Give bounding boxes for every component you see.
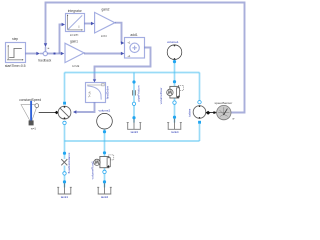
svg-text:integrator: integrator bbox=[68, 9, 83, 13]
svg-text:I: I bbox=[79, 25, 80, 29]
fluid port nodes (filled) bbox=[63, 60, 201, 183]
wire junction riser to integrator bbox=[60, 23, 66, 54]
gain2 block bbox=[95, 8, 115, 38]
svg-text:tank3: tank3 bbox=[131, 130, 139, 134]
wire gain1 to add1 bbox=[84, 52, 124, 55]
svg-text:T=1/k: T=1/k bbox=[89, 91, 92, 98]
valve X (branch to tank1) bbox=[61, 152, 71, 173]
svg-text:pipeFriction: pipeFriction bbox=[136, 85, 140, 101]
integrator block bbox=[66, 9, 85, 37]
svg-text:volume1: volume1 bbox=[167, 40, 179, 44]
svg-text:w=1: w=1 bbox=[31, 127, 37, 131]
shaft turbine to speedSensor bbox=[206, 111, 217, 115]
fluid port nodes (hollow) bbox=[63, 101, 201, 176]
svg-text:k=Uk: k=Uk bbox=[72, 64, 79, 68]
firstOrder PT1 block (rotated) bbox=[86, 83, 110, 103]
svg-text:feedback: feedback bbox=[38, 59, 51, 63]
prescribed pump 2 (branch to tank2) bbox=[90, 155, 113, 179]
pump (slash circle) bbox=[58, 106, 71, 119]
svg-text:step: step bbox=[12, 37, 18, 41]
svg-text:gain2: gain2 bbox=[101, 8, 109, 12]
pipe network (cyan) bbox=[65, 60, 200, 188]
prescribed pump 1 (branch to tank4) bbox=[159, 85, 183, 104]
wire feedback to gain1 with junction node bbox=[47, 52, 64, 55]
feedback summing junction bbox=[38, 48, 51, 62]
tank2 bbox=[97, 183, 112, 199]
svg-text:startTime=0.5: startTime=0.5 bbox=[5, 64, 26, 68]
wire gain2 to add1 bbox=[115, 23, 124, 45]
svg-text:turbine: turbine bbox=[187, 108, 191, 117]
tank3 bbox=[127, 119, 142, 135]
svg-text:k=N: k=N bbox=[101, 34, 106, 38]
volume1 bbox=[167, 40, 182, 59]
svg-text:flowResistance: flowResistance bbox=[67, 152, 71, 173]
orifice (branch to tank3) bbox=[133, 85, 141, 101]
wire add1 to firstOrder bbox=[93, 48, 151, 83]
svg-text:tank4: tank4 bbox=[171, 130, 179, 134]
svg-text:w: w bbox=[232, 118, 234, 121]
svg-text:k=1/Ti: k=1/Ti bbox=[70, 33, 78, 37]
wire integrator to gain2 bbox=[85, 22, 95, 25]
wire step to feedback bbox=[26, 52, 44, 55]
tank1 bbox=[57, 183, 72, 199]
svg-text:tank1: tank1 bbox=[61, 195, 69, 199]
gain1 block bbox=[65, 39, 84, 68]
svg-text:tank2: tank2 bbox=[101, 195, 109, 199]
turbine circle bbox=[187, 105, 205, 118]
svg-text:speedSensor: speedSensor bbox=[215, 101, 233, 105]
wire firstOrder to pump speed input bbox=[73, 103, 95, 114]
step source step bbox=[5, 37, 26, 68]
wire feedback loop from speedSensor to feedback bbox=[44, 3, 245, 113]
add1 adder block bbox=[125, 33, 145, 58]
volume2 bbox=[97, 108, 113, 129]
svg-text:volumeFlow: volumeFlow bbox=[159, 87, 163, 104]
svg-text:volumeFlow1: volumeFlow1 bbox=[90, 161, 94, 180]
svg-text:firstOrder: firstOrder bbox=[105, 86, 109, 99]
shaft constantSpeed to pump bbox=[39, 111, 59, 115]
svg-text:gain1: gain1 bbox=[70, 39, 78, 43]
tank4 bbox=[167, 119, 182, 135]
svg-text:add1: add1 bbox=[130, 33, 138, 37]
speedSensor bbox=[215, 101, 235, 121]
svg-text:volume2: volume2 bbox=[99, 108, 111, 112]
constantSpeed source bbox=[19, 98, 41, 131]
